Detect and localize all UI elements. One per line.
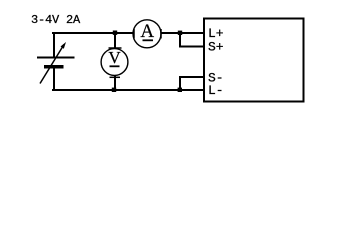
junction node bottom right	[178, 88, 182, 92]
svg-text:3-4V 2A: 3-4V 2A	[31, 13, 81, 27]
wire voltmeter branch bottom	[114, 76, 116, 90]
wire bottom rail	[52, 89, 203, 91]
wire left vertical lower	[53, 67, 55, 91]
voltmeter U2 underline	[110, 65, 120, 67]
load box	[204, 19, 304, 102]
wire voltmeter branch top	[114, 33, 116, 49]
junction node top right	[178, 31, 182, 35]
junction node top voltmeter	[113, 31, 117, 35]
ammeter U1 right tick	[160, 29, 162, 39]
ammeter U1 left tick	[133, 29, 135, 39]
voltmeter U2 bottom tick	[110, 76, 121, 78]
ammeter U1 underline	[143, 39, 154, 41]
wire S+ stub	[179, 46, 203, 48]
svg-text:V: V	[108, 48, 121, 67]
svg-text:A: A	[140, 21, 154, 42]
wire S- stub	[179, 76, 203, 78]
battery BT1 adjust arrow	[40, 42, 66, 84]
battery BT1 thick plate	[44, 65, 64, 69]
wire top rail	[52, 32, 203, 34]
svg-text:S+: S+	[208, 40, 224, 55]
voltmeter U2 circle	[101, 49, 128, 76]
voltmeter U2 top tick	[109, 47, 122, 49]
wire S+ drop	[179, 33, 181, 47]
ammeter U1 circle	[133, 20, 161, 48]
wire S- rise	[179, 77, 181, 90]
svg-text:L-: L-	[208, 83, 224, 98]
wire left vertical upper	[53, 32, 55, 58]
junction node bottom voltmeter	[112, 88, 116, 92]
battery BT1 long plate	[37, 57, 75, 59]
